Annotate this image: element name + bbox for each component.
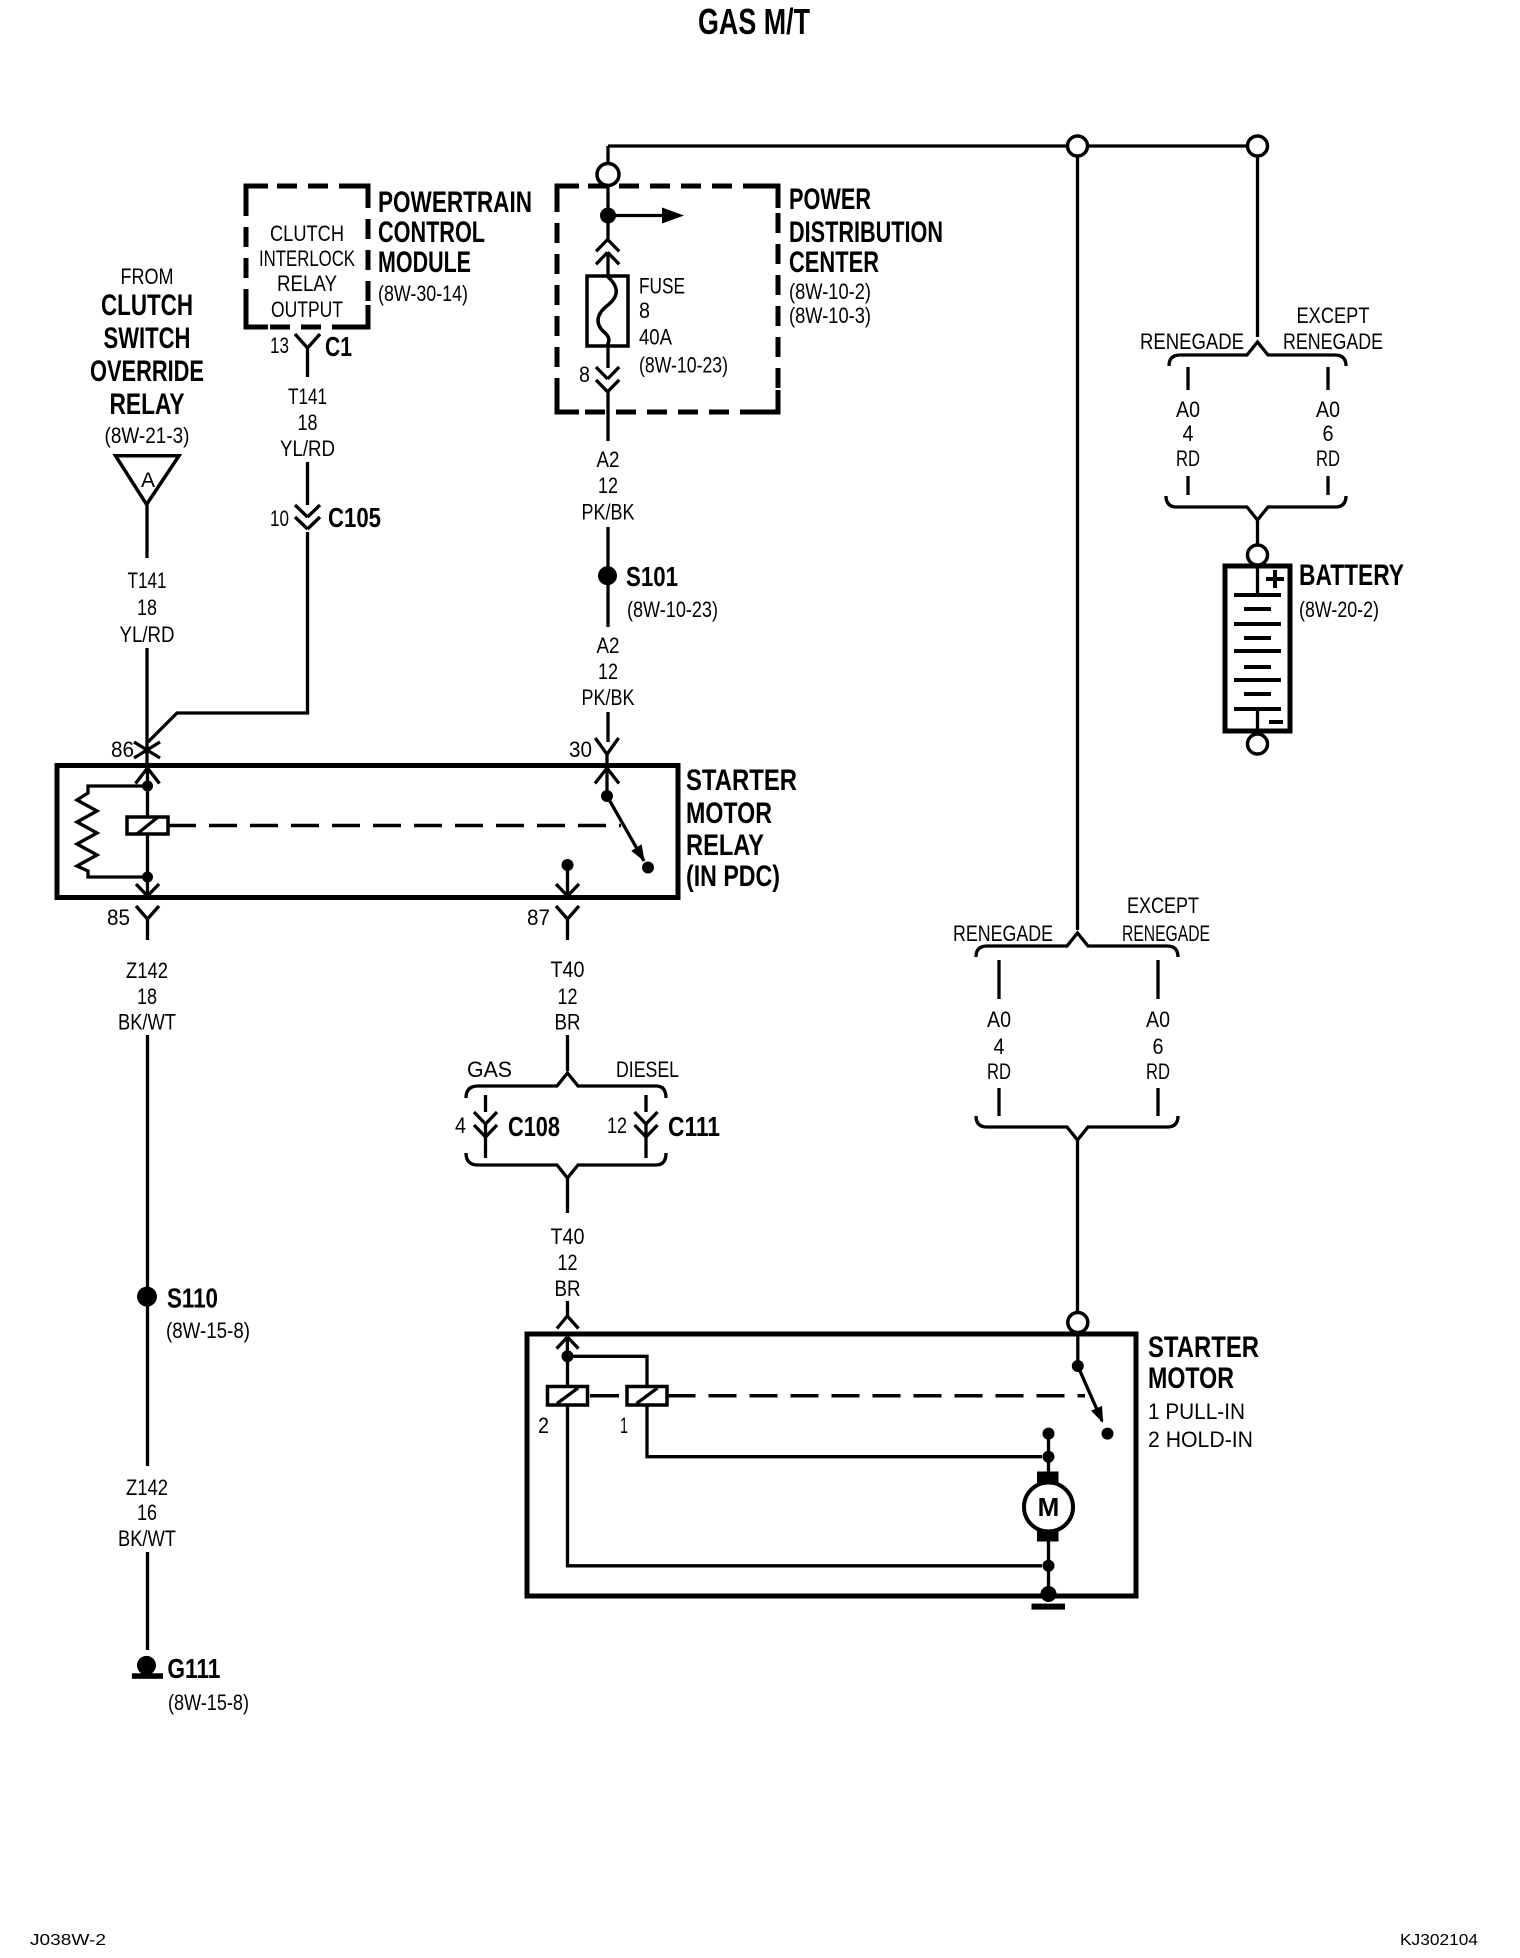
starter switch blade with arrowhead <box>1078 1366 1103 1423</box>
starter merge brace bottom <box>976 1116 1178 1140</box>
svg-text:RENEGADE: RENEGADE <box>1283 329 1383 354</box>
starter switch terminal circle <box>1068 1313 1088 1333</box>
arrow feed to other circuits <box>608 208 684 224</box>
ground name G111 (8W-15-8) <box>167 1653 249 1715</box>
starter motor box <box>527 1334 1136 1596</box>
svg-text:87: 87 <box>527 905 550 930</box>
split brace top (GAS/DIESEL) <box>466 1073 666 1098</box>
relay coil top junction dot <box>142 781 153 792</box>
svg-text:A: A <box>141 469 155 492</box>
motor M armature <box>1024 1472 1073 1542</box>
ground G111 symbol <box>132 1656 163 1679</box>
svg-text:MODULE: MODULE <box>378 246 471 279</box>
svg-text:DIESEL: DIESEL <box>616 1057 679 1082</box>
svg-text:A0: A0 <box>1316 397 1340 422</box>
connector symbol at pin 86 <box>134 742 160 758</box>
wire motor to case ground <box>1047 1542 1050 1595</box>
svg-text:CLUTCH: CLUTCH <box>101 289 193 322</box>
relay NO contact dot <box>642 862 654 874</box>
svg-text:CONTROL: CONTROL <box>378 216 485 249</box>
starter split right dash <box>1156 960 1159 999</box>
starter split left lower dash <box>997 1088 1000 1116</box>
wire PDC circle to junction dot <box>606 186 609 217</box>
label POWERTRAIN CONTROL MODULE (8W-30-14) <box>378 186 532 306</box>
svg-text:A0: A0 <box>987 1007 1011 1032</box>
svg-text:10: 10 <box>270 506 289 531</box>
svg-text:C111: C111 <box>668 1111 720 1142</box>
svg-text:RD: RD <box>987 1059 1011 1084</box>
wire chevron to fuse <box>606 252 609 278</box>
svg-text:4: 4 <box>1183 421 1194 446</box>
svg-text:(8W-15-8): (8W-15-8) <box>166 1318 250 1343</box>
starter case ground <box>1032 1586 1066 1610</box>
wire upper dot to junction <box>1047 1434 1050 1457</box>
svg-text:T141: T141 <box>128 568 167 593</box>
svg-text:BK/WT: BK/WT <box>118 1010 176 1035</box>
wire to GAS/DIESEL split <box>566 1035 569 1071</box>
wire merge to battery terminal <box>1256 520 1259 546</box>
double chevron above fuse <box>596 240 619 265</box>
svg-text:A2: A2 <box>597 447 620 472</box>
svg-text:RENEGADE: RENEGADE <box>1140 329 1244 354</box>
svg-text:G111: G111 <box>167 1653 220 1684</box>
relay common contact dot (pin 30) <box>601 790 613 802</box>
GAS branch wire <box>484 1095 487 1112</box>
wire S110 down <box>146 1306 149 1466</box>
svg-text:(8W-20-2): (8W-20-2) <box>1299 597 1379 622</box>
relay pin 87 internal arrow <box>556 865 579 896</box>
label EXCEPT RENEGADE (starter right) <box>1122 893 1210 946</box>
starter feed junction dot <box>562 1350 574 1362</box>
starter switch pivot dot <box>1072 1360 1084 1372</box>
svg-text:86: 86 <box>111 737 134 762</box>
powertrain control module PCM dashed box <box>246 186 368 327</box>
double chevron below fuse <box>596 367 619 392</box>
relay suppression resistor (zigzag) <box>77 786 148 877</box>
svg-text:A0: A0 <box>1146 1007 1170 1032</box>
battery split right dash <box>1326 367 1329 390</box>
battery split right lower dash <box>1326 476 1329 495</box>
battery merge brace bottom <box>1166 496 1346 520</box>
off-page connector triangle A (from clutch switch override relay) <box>116 456 180 505</box>
PDC terminal circle <box>597 164 619 186</box>
wire coil 1 to motor feed <box>647 1405 1042 1457</box>
battery split brace top <box>1169 342 1346 366</box>
motor feed upper dot <box>1043 1428 1055 1440</box>
svg-text:GAS M/T: GAS M/T <box>698 1 810 42</box>
svg-text:S101: S101 <box>626 561 678 592</box>
svg-text:12: 12 <box>558 984 578 1009</box>
svg-text:DISTRIBUTION: DISTRIBUTION <box>789 216 943 249</box>
starter motor relay box <box>57 766 678 898</box>
wire label A0 6 RD (starter right) <box>1146 1007 1170 1084</box>
svg-text:BK/WT: BK/WT <box>118 1526 176 1551</box>
svg-text:FUSE: FUSE <box>639 274 685 299</box>
svg-text:T141: T141 <box>288 384 327 409</box>
svg-text:6: 6 <box>1153 1034 1164 1059</box>
svg-text:30: 30 <box>569 737 592 762</box>
connector C105 symbol (double chevron) <box>295 505 320 529</box>
connector symbol at pin 30 <box>595 738 618 770</box>
svg-text:CLUTCH: CLUTCH <box>270 221 344 246</box>
svg-text:12: 12 <box>558 1250 578 1275</box>
svg-text:A2: A2 <box>597 633 620 658</box>
svg-text:8: 8 <box>639 298 650 323</box>
svg-text:T40: T40 <box>551 1224 585 1249</box>
svg-text:16: 16 <box>137 1500 157 1525</box>
svg-text:STARTER: STARTER <box>1148 1331 1259 1364</box>
relay coil bottom junction dot <box>142 872 153 883</box>
relay actuation dashed link <box>168 824 621 828</box>
relay coil <box>127 786 168 877</box>
wire rail to battery split <box>1256 156 1259 337</box>
wire rail to starter split <box>1076 156 1079 930</box>
svg-text:BR: BR <box>555 1010 581 1035</box>
svg-text:RD: RD <box>1176 446 1200 471</box>
wire down to relay pin 86 <box>145 648 148 766</box>
svg-text:2 HOLD-IN: 2 HOLD-IN <box>1148 1427 1253 1452</box>
starter switch contact dot <box>1102 1428 1114 1440</box>
DIESEL branch wire <box>644 1095 647 1112</box>
split brace bottom (merge) <box>466 1153 666 1178</box>
top feed rail wire <box>608 144 1258 147</box>
starter split right lower dash <box>1156 1088 1159 1116</box>
svg-text:(8W-10-2): (8W-10-2) <box>789 279 871 304</box>
connector C1 symbol (Y) <box>295 334 320 377</box>
wire S101 down <box>606 585 609 627</box>
svg-text:RELAY: RELAY <box>110 388 185 421</box>
wire label A0 6 RD (right) <box>1316 397 1340 471</box>
svg-text:POWER: POWER <box>789 183 871 216</box>
wire junction to motor <box>1047 1457 1050 1472</box>
connector C111 symbol (double chevron) <box>635 1112 658 1158</box>
connector C108 symbol (double chevron) <box>474 1112 497 1158</box>
starter feed external connector (inverted Y) <box>557 1316 579 1329</box>
wire label T141 18 YL/RD (left column) <box>120 568 175 647</box>
starter split brace top <box>976 933 1178 957</box>
svg-text:18: 18 <box>137 984 157 1009</box>
splice S110 dot <box>137 1287 157 1307</box>
motor return junction dot <box>1043 1560 1055 1572</box>
svg-text:4: 4 <box>994 1034 1005 1059</box>
svg-text:13: 13 <box>270 333 289 358</box>
battery BATT box <box>1225 566 1290 731</box>
svg-text:18: 18 <box>137 595 157 620</box>
svg-text:MOTOR: MOTOR <box>686 797 772 830</box>
wire down to starter motor <box>566 1301 569 1317</box>
starter feed internal arrow <box>557 1337 579 1356</box>
wire merge down to starter motor <box>1076 1140 1079 1313</box>
relay pin 86 internal arrow <box>136 768 160 786</box>
pin 87 external connector Y <box>556 906 579 940</box>
battery positive terminal circle <box>1248 545 1268 565</box>
junction dot in PDC <box>600 208 616 224</box>
power distribution center PDC dashed box <box>557 186 778 412</box>
svg-text:T40: T40 <box>551 957 585 982</box>
wire fuse to lower chevron <box>606 346 609 368</box>
svg-text:12: 12 <box>598 659 618 684</box>
svg-text:J038W-2: J038W-2 <box>30 1932 106 1949</box>
battery internal plates and polarity <box>1234 566 1284 731</box>
svg-text:8: 8 <box>579 362 590 387</box>
svg-text:OVERRIDE: OVERRIDE <box>90 355 204 388</box>
svg-text:PK/BK: PK/BK <box>582 499 635 524</box>
relay label STARTER MOTOR RELAY (IN PDC) <box>686 764 797 893</box>
wire label Z142 16 BK/WT <box>118 1475 176 1551</box>
svg-text:1: 1 <box>620 1413 628 1438</box>
svg-text:C108: C108 <box>508 1111 560 1142</box>
wire switch circle to pivot dot <box>1076 1333 1079 1367</box>
svg-text:RD: RD <box>1316 446 1340 471</box>
wire from C105 joining pin 86 (horizontal + diagonal) <box>148 532 308 742</box>
battery split left lower dash <box>1186 476 1189 495</box>
svg-text:BR: BR <box>555 1276 581 1301</box>
svg-text:12: 12 <box>598 473 618 498</box>
svg-text:S110: S110 <box>167 1283 218 1314</box>
svg-text:(8W-30-14): (8W-30-14) <box>378 281 468 306</box>
splice name S101 (8W-10-23) <box>626 561 718 622</box>
svg-text:(8W-15-8): (8W-15-8) <box>168 1690 249 1715</box>
svg-text:A0: A0 <box>1176 397 1200 422</box>
svg-text:YL/RD: YL/RD <box>280 436 335 461</box>
wire label T141 18 YL/RD (C1 to C105) <box>280 384 335 461</box>
rail connector circle (right, to battery) <box>1248 136 1268 156</box>
svg-text:1 PULL-IN: 1 PULL-IN <box>1148 1399 1245 1424</box>
svg-text:PK/BK: PK/BK <box>582 685 635 710</box>
svg-text:SWITCH: SWITCH <box>104 322 191 355</box>
svg-text:EXCEPT: EXCEPT <box>1297 303 1370 328</box>
svg-text:MOTOR: MOTOR <box>1148 1362 1234 1395</box>
label EXCEPT RENEGADE (battery right) <box>1283 303 1383 354</box>
wire label A0 4 RD (left) <box>1176 397 1200 471</box>
svg-text:POWERTRAIN: POWERTRAIN <box>378 186 532 219</box>
pin 85 external connector Y <box>136 906 159 940</box>
wire rail down to PDC connector circle <box>606 146 609 164</box>
svg-text:OUTPUT: OUTPUT <box>271 297 343 322</box>
wire dot to solenoid coil 2 <box>566 1356 569 1387</box>
svg-text:C1: C1 <box>325 331 352 362</box>
svg-text:RD: RD <box>1146 1059 1170 1084</box>
wire C1 label to C105 <box>306 462 309 505</box>
wire to relay pin 30 <box>606 712 609 742</box>
relay switch blade with arrowhead <box>607 796 645 862</box>
svg-text:85: 85 <box>107 905 130 930</box>
svg-text:Z142: Z142 <box>126 1475 168 1500</box>
PCM box internal label CLUTCH INTERLOCK RELAY OUTPUT <box>259 221 355 322</box>
wire pin 85 to splice S110 <box>146 1035 149 1288</box>
wire to splice S101 <box>606 527 609 567</box>
motor feed junction dot <box>1043 1451 1055 1463</box>
splice S101 dot <box>598 566 617 585</box>
wire label T40 12 BR (upper) <box>551 957 585 1035</box>
svg-text:INTERLOCK: INTERLOCK <box>259 246 355 271</box>
rail connector circle (left, to starter motor) <box>1068 136 1088 156</box>
dash link between coils <box>590 1394 619 1398</box>
svg-text:KJ302104: KJ302104 <box>1400 1932 1478 1949</box>
wire dot to fuse chevrons <box>606 216 609 241</box>
svg-text:Z142: Z142 <box>126 958 168 983</box>
wire label A2 12 PK/BK (upper) <box>582 447 635 524</box>
svg-text:(8W-21-3): (8W-21-3) <box>105 423 190 448</box>
svg-text:12: 12 <box>607 1113 627 1138</box>
solenoid coil 2 (hold-in) <box>548 1387 588 1406</box>
svg-text:BATTERY: BATTERY <box>1299 559 1404 592</box>
fuse label FUSE 8 40A (8W-10-23) <box>639 274 728 378</box>
svg-text:STARTER: STARTER <box>686 764 797 797</box>
starter label STARTER MOTOR 1 PULL-IN 2 HOLD-IN <box>1148 1331 1259 1452</box>
svg-text:(IN PDC): (IN PDC) <box>686 860 780 893</box>
relay pin 85 internal arrow <box>136 877 159 896</box>
wire dot to solenoid coil 1 <box>568 1356 648 1387</box>
battery split left dash <box>1186 367 1189 390</box>
svg-text:GAS: GAS <box>467 1057 512 1082</box>
svg-text:4: 4 <box>455 1113 466 1138</box>
svg-text:EXCEPT: EXCEPT <box>1127 893 1199 918</box>
label FROM CLUTCH SWITCH OVERRIDE RELAY (8W-21-3) <box>90 264 204 448</box>
svg-text:RELAY: RELAY <box>277 271 337 296</box>
svg-text:C105: C105 <box>328 502 381 533</box>
svg-text:6: 6 <box>1323 421 1334 446</box>
battery name BATTERY (8W-20-2) <box>1299 559 1404 622</box>
svg-text:YL/RD: YL/RD <box>120 622 175 647</box>
svg-text:FROM: FROM <box>121 264 174 289</box>
wire to ground G111 <box>146 1552 149 1650</box>
svg-text:(8W-10-23): (8W-10-23) <box>627 597 718 622</box>
label POWER DISTRIBUTION CENTER (8W-10-2) (8W-10-3) <box>789 183 943 328</box>
starter split left dash <box>997 960 1000 999</box>
relay pin 30 internal arrow <box>595 768 619 796</box>
wire label Z142 18 BK/WT <box>118 958 176 1035</box>
svg-text:2: 2 <box>538 1413 549 1438</box>
wire leaving PDC box <box>606 392 609 441</box>
svg-text:RENEGADE: RENEGADE <box>1122 921 1210 946</box>
fuse 8 40A element box <box>587 276 628 346</box>
wire coil 2 to motor return <box>568 1405 1043 1566</box>
wire from triangle A down <box>145 504 148 558</box>
svg-text:M: M <box>1038 1492 1060 1522</box>
wire label A2 12 PK/BK (lower) <box>582 633 635 710</box>
splice name S110 (8W-15-8) <box>166 1283 250 1344</box>
svg-text:(8W-10-23): (8W-10-23) <box>639 353 728 378</box>
solenoid actuation dashed link <box>668 1394 1086 1398</box>
svg-text:40A: 40A <box>639 325 672 350</box>
svg-text:(8W-10-3): (8W-10-3) <box>789 303 871 328</box>
svg-text:RENEGADE: RENEGADE <box>953 921 1053 946</box>
wire label A0 4 RD (starter left) <box>987 1007 1011 1084</box>
solenoid coil 1 (pull-in) <box>627 1387 667 1406</box>
battery negative terminal circle <box>1248 734 1268 754</box>
svg-text:RELAY: RELAY <box>686 829 764 862</box>
wire merge down <box>566 1178 569 1213</box>
relay pin 87 dot <box>562 859 574 871</box>
svg-text:CENTER: CENTER <box>789 246 879 279</box>
wire label T40 12 BR (lower) <box>551 1224 585 1301</box>
svg-text:18: 18 <box>298 410 318 435</box>
